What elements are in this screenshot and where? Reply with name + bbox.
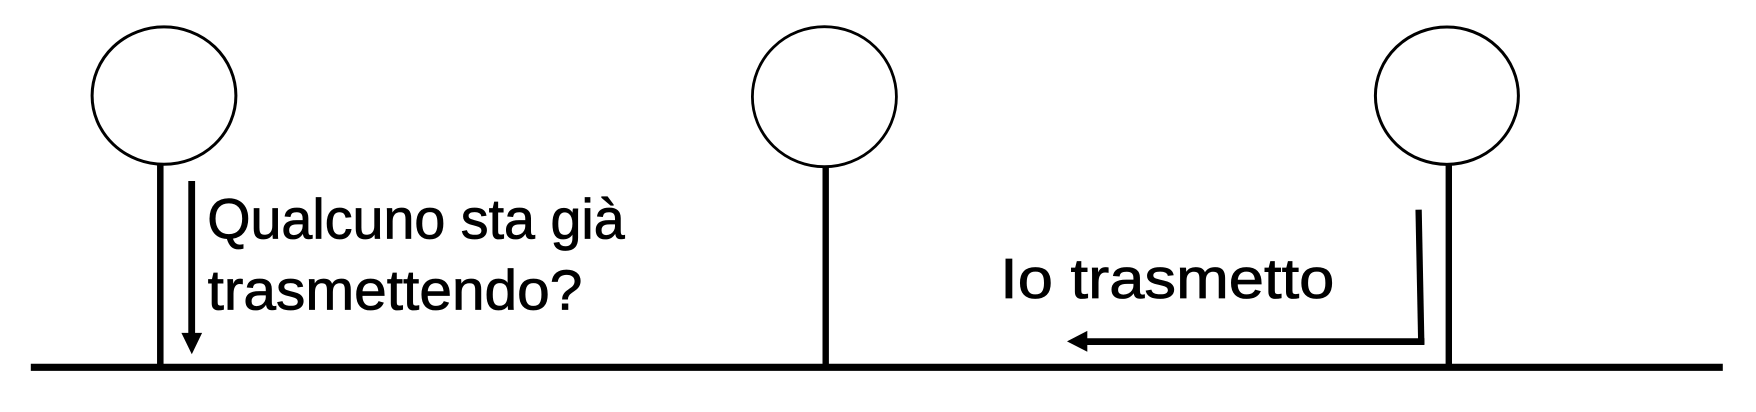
svg-text:trasmettendo?: trasmettendo? (208, 258, 583, 322)
svg-text:Io trasmetto: Io trasmetto (1000, 247, 1334, 311)
svg-text:Qualcuno sta già: Qualcuno sta già (207, 188, 625, 252)
